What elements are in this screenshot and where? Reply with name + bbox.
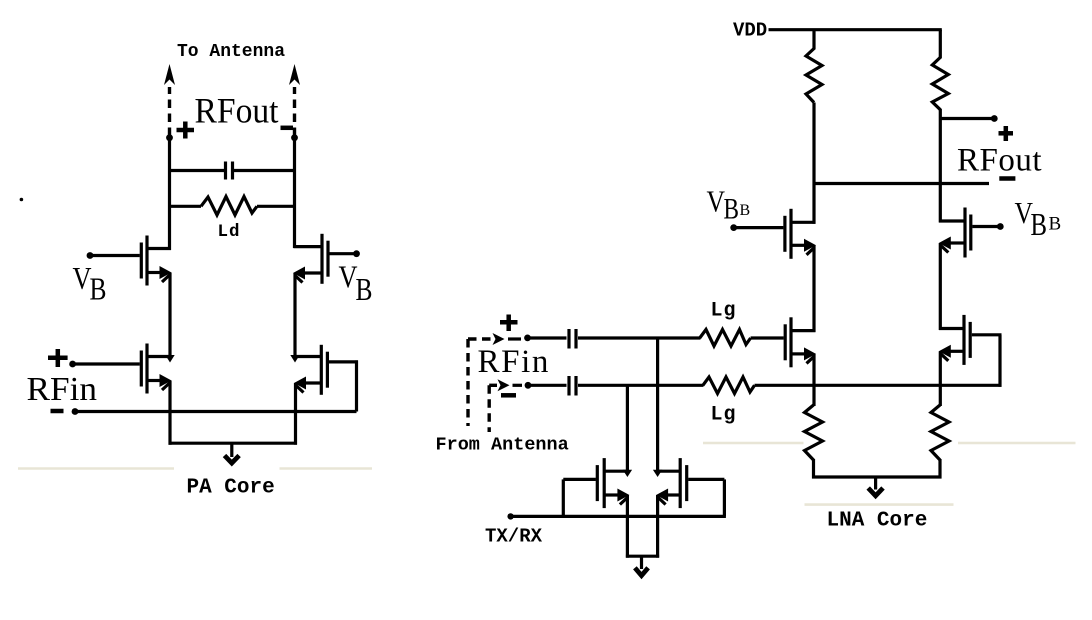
value label Lg (bottom) <box>711 404 737 427</box>
svg-text:B: B <box>356 271 373 307</box>
TX/RX caption <box>485 526 543 548</box>
ground switch stem <box>640 556 643 569</box>
from-antenna dashed arrow + <box>468 333 521 345</box>
inductor Ld left wire <box>168 205 201 208</box>
svg-text:B: B <box>724 193 740 226</box>
current arrow at M4 drain <box>290 355 299 363</box>
wire M6 source to degeneration inductor <box>812 354 815 406</box>
wire left branch between M5 and M6 <box>812 245 815 332</box>
svg-text:B: B <box>740 202 751 219</box>
svg-text:RFin: RFin <box>478 344 550 380</box>
net label VB (left) <box>73 260 107 307</box>
wire RFin- horizontal <box>75 410 357 413</box>
wire VDD to right load resistor <box>939 30 942 59</box>
wire mid horizontal (drain cross wire) <box>814 182 989 185</box>
transistor M7 (LNA cascode right) gate bar <box>969 215 972 251</box>
value label Lg (top) <box>711 300 737 323</box>
svg-text:B: B <box>90 271 107 307</box>
plus sign RFout(LNA)+ <box>999 126 1014 141</box>
wire C1 to Lg1 <box>578 336 701 339</box>
transistor M5 source with arrow <box>791 239 816 255</box>
transistor M1 drain <box>147 247 171 250</box>
node TX/RX terminal dot <box>507 513 513 519</box>
node VBB left gate dot <box>730 224 737 231</box>
wire C2 to Lg2 <box>578 384 704 387</box>
wire Ls2 to LNA bus <box>938 459 941 479</box>
wire RFin- riser to M4 gate <box>355 360 358 411</box>
transistor M3 (PA top-right) gate bar <box>326 241 329 277</box>
transistor M4 channel bar <box>320 345 323 395</box>
transistor M8 (LNA input right) gate bar <box>969 322 972 358</box>
wire RFin- to coupling cap C2 <box>528 384 567 387</box>
plus sign RFout+ <box>177 122 195 139</box>
inductor Ls2 (right degeneration) zigzag <box>931 405 949 460</box>
transistor M6 (LNA input left) gate bar <box>784 324 787 360</box>
node RFout(LNA) terminal dot <box>991 115 998 122</box>
transistor M6 source with arrow <box>791 347 816 363</box>
svg-text:Lg: Lg <box>711 300 737 323</box>
transistor M5 drain <box>791 221 816 224</box>
wire M9 source down <box>626 495 629 558</box>
wire right branch M4 source to bus <box>294 383 297 445</box>
capacitor C1 plates <box>569 329 576 349</box>
capacitor Cd left wire <box>168 169 224 172</box>
transistor M3 channel bar <box>320 234 323 284</box>
LNA Core caption <box>827 510 928 533</box>
svg-text:RFin: RFin <box>27 371 98 408</box>
decorative faint rule left <box>18 467 372 470</box>
from-antenna dashed arrow - <box>489 379 522 391</box>
transistor M7 drain <box>939 219 965 222</box>
antenna arrow left (dashed, to antenna +) <box>164 64 175 136</box>
svg-text:Lg: Lg <box>711 404 737 427</box>
wire M8 gate riser <box>998 335 1001 387</box>
svg-text:To Antenna: To Antenna <box>177 42 285 62</box>
transistor M3 drain <box>294 245 323 248</box>
svg-text:Ld: Ld <box>218 222 241 242</box>
wire left branch M2 source to bus <box>168 381 171 445</box>
node RFin(LNA)- dot <box>525 382 532 389</box>
net label VBB (left) <box>707 184 751 226</box>
wire M8 source to degeneration inductor <box>939 351 942 406</box>
transistor M10 gate wire <box>688 478 724 481</box>
transistor M6 drain <box>791 329 816 332</box>
inductor Ls1 (left degeneration) zigzag <box>805 405 823 460</box>
decorative faint rule right upper <box>703 442 1076 445</box>
transistor M10 (switch right) gate bar <box>685 465 688 501</box>
from-antenna dashed vertical - <box>488 385 491 432</box>
node RFout- terminal dot <box>291 134 298 141</box>
transistor M9 drain <box>604 470 629 473</box>
capacitor Cd right wire <box>234 169 296 172</box>
transistor M1 channel bar <box>145 236 148 286</box>
wire switch tail bus <box>626 555 659 558</box>
transistor M8 drain <box>939 327 964 330</box>
svg-text:RFout: RFout <box>195 91 279 131</box>
node VB right gate dot <box>353 250 360 257</box>
node RFin- dot <box>72 408 79 415</box>
transistor M8 channel bar <box>962 315 965 365</box>
transistor M9 channel bar <box>603 458 606 508</box>
ground LNA stem <box>874 477 877 490</box>
transistor M9 gate wire <box>563 478 596 481</box>
net label VBB (right) <box>1015 195 1062 242</box>
transistor M3 gate wire <box>330 252 357 255</box>
wire switch drop from RFin+ <box>656 338 659 473</box>
wire Ls1 to LNA bus <box>812 459 815 479</box>
transistor M4 gate wire (feedback from RFin-) <box>329 360 358 363</box>
inductor Lg2 zigzag <box>703 377 755 394</box>
wire PA tail bus <box>169 442 298 445</box>
current arrow at M2 drain <box>165 355 174 363</box>
minus sign RFin- <box>51 409 64 414</box>
node RFout(LNA) label <box>957 143 1042 179</box>
transistor M2 source with arrow <box>147 374 172 390</box>
value label Ld <box>218 222 241 242</box>
svg-text:B: B <box>1049 214 1062 235</box>
plus sign RFin+ <box>48 349 68 367</box>
minus sign RFout- <box>281 126 294 131</box>
transistor M1 (PA top-left) gate bar <box>140 243 143 279</box>
node RFin(PA) label <box>27 371 98 408</box>
transistor M8 gate wire <box>972 333 1002 336</box>
svg-text:RFout: RFout <box>957 143 1042 179</box>
wire M9 gate drop to TX/RX <box>562 479 565 516</box>
transistor M3 source with arrow <box>293 267 322 283</box>
transistor M9 (switch left) gate bar <box>596 465 599 501</box>
PA Core caption <box>187 477 275 500</box>
current arrow at M10 drain <box>653 470 662 477</box>
wire switch drop from RFin- <box>626 385 629 472</box>
wire TX/RX control line <box>511 515 726 518</box>
wire VDD rail <box>769 28 942 31</box>
svg-text:VDD: VDD <box>733 20 767 42</box>
node To Antenna label <box>177 42 285 62</box>
net label VDD <box>733 20 767 42</box>
svg-text:PA Core: PA Core <box>187 477 275 500</box>
svg-text:TX/RX: TX/RX <box>485 526 543 548</box>
node RFin(LNA) label <box>478 344 550 380</box>
node VB left gate dot <box>87 252 94 259</box>
from-antenna dashed vertical + <box>466 339 469 426</box>
wire Lg1 to M6 gate <box>751 336 784 339</box>
resistor RL1 (left load) zigzag <box>806 49 822 103</box>
transistor M4 (PA bottom-right) gate bar <box>326 352 329 388</box>
transistor M10 drain <box>656 470 680 473</box>
node RFout+ terminal dot <box>166 134 173 141</box>
minus sign RFin(LNA)- <box>501 393 516 398</box>
wire right branch between M3 and M4 <box>293 273 296 358</box>
wire M10 gate drop to TX/RX <box>723 479 726 516</box>
resistor RL2 (right load) zigzag <box>932 57 948 109</box>
transistor M1 source with arrow <box>147 266 172 282</box>
transistor M4 source with arrow <box>294 377 321 393</box>
plus sign RFin(LNA)+ <box>500 315 518 332</box>
svg-text:LNA Core: LNA Core <box>827 510 928 533</box>
node RFin+ dot <box>69 361 76 368</box>
From Antenna caption <box>436 435 569 456</box>
node RFout(PA) label <box>195 91 279 131</box>
current arrow at M9 drain <box>623 470 632 477</box>
transistor M2 (PA bottom-left) gate bar <box>140 351 143 387</box>
wire M10 source down <box>656 495 659 558</box>
wire LNA tail bus <box>812 475 942 478</box>
ground PA stem <box>230 443 233 457</box>
inductor Ld zigzag <box>201 197 257 216</box>
transistor M8 source with arrow <box>939 345 964 361</box>
transistor M2 gate wire (RFin+) <box>73 362 140 365</box>
wire left branch resistor to M5 drain <box>812 103 815 224</box>
transistor M5 gate wire <box>734 226 784 229</box>
inductor Lg1 zigzag <box>700 330 751 347</box>
wire RFout tap <box>940 117 994 120</box>
wire Lg2 to M8 gate riser (long differential line) <box>755 384 1002 387</box>
transistor M6 channel bar <box>789 317 792 367</box>
capacitor C2 plates <box>569 376 576 396</box>
transistor M5 (LNA cascode left) gate bar <box>783 216 786 252</box>
transistor M2 drain <box>147 355 171 358</box>
ground switch chevron <box>635 568 648 576</box>
wire right branch between M7 and M8 <box>939 243 942 330</box>
ground PA chevron <box>225 456 240 464</box>
wire right branch vertical top <box>293 138 296 248</box>
transistor M4 drain <box>294 355 321 358</box>
transistor M9 source with arrow <box>604 489 629 505</box>
node VBB right gate dot <box>997 223 1004 230</box>
antenna arrow right (dashed, to antenna -) <box>289 64 300 136</box>
transistor M7 channel bar <box>963 208 966 258</box>
decorative faint rule above LNA Core <box>805 503 954 506</box>
transistor M10 channel bar <box>679 458 682 508</box>
transistor M5 channel bar <box>789 209 792 259</box>
wire right branch resistor to M7 drain <box>939 109 942 223</box>
transistor M7 gate wire <box>972 225 1000 228</box>
ground LNA chevron <box>868 488 883 496</box>
stray dot artifact <box>20 198 24 202</box>
node RFin(LNA)+ dot <box>524 335 531 342</box>
transistor M10 source with arrow <box>656 489 680 505</box>
wire RFin+ to coupling cap C1 <box>528 336 567 339</box>
minus sign RFout(LNA)- <box>999 176 1015 181</box>
transistor M7 source with arrow <box>939 237 965 253</box>
transistor M2 channel bar <box>145 344 148 394</box>
wire VDD to left load resistor <box>812 30 815 50</box>
capacitor Cd plates <box>226 162 233 180</box>
net label VB (right) <box>339 259 373 308</box>
transistor M1 gate wire <box>90 254 140 257</box>
svg-text:B: B <box>1031 206 1048 242</box>
wire left branch between M1 and M2 <box>168 273 171 359</box>
wire left branch vertical top <box>168 138 171 250</box>
inductor Ld right wire <box>257 205 296 208</box>
svg-text:From Antenna: From Antenna <box>436 435 569 456</box>
